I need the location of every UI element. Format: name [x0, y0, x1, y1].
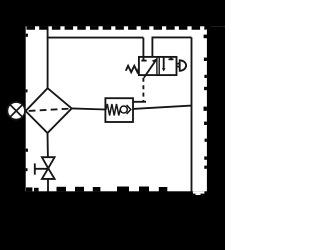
- white page background: [0, 0, 225, 250]
- dashed element line through filter: [29, 109, 71, 111]
- right edge nicks: [204, 58, 207, 61]
- stub from box top-right: [133, 101, 146, 103]
- left edge nicks: [26, 34, 28, 37]
- pushbutton operator (valve right): [177, 60, 187, 71]
- wire: bracket from valve top over to right riser: [152, 37, 191, 57]
- filter F1 (diamond): [26, 88, 72, 133]
- bottom margin band: [0, 191, 225, 250]
- down arrow in right square: [162, 57, 166, 72]
- black scan margins: [0, 0, 225, 250]
- wire: shutoff valve down to bottom edge: [47, 179, 49, 194]
- spring (valve left): [126, 66, 139, 72]
- wire: check-valve box to right riser: [133, 106, 192, 109]
- directional valve U1 body (2 squares): [139, 57, 177, 75]
- wire: filter outlet to check-valve box: [72, 108, 106, 109]
- bottom ragged dashes: [26, 187, 32, 191]
- wire: left supply riser (top border to filter): [47, 24, 49, 88]
- left margin band: [0, 0, 26, 250]
- pilot line (dashed) from valve to check-valve stub: [142, 78, 144, 102]
- top margin band: [0, 0, 225, 26]
- top-right corner step: [205, 26, 211, 29]
- blocked port T in right square: [169, 57, 174, 60]
- right margin band: [207, 26, 225, 250]
- blocked port T in left square: [141, 57, 146, 61]
- wire: filter bottom to shutoff valve: [47, 133, 49, 158]
- wire: top horizontal run to valve drop: [47, 37, 144, 39]
- clogging indicator (circle with X) drawn over margin: [7, 102, 25, 120]
- wire: vertical drop into valve left-square top port: [142, 38, 144, 58]
- wire: right return riser down to bottom edge: [191, 37, 193, 194]
- check valve C1 (boxed, spring loaded): [105, 98, 133, 122]
- top ragged dash strip: [27, 26, 207, 30]
- flow arrow in left square: [144, 58, 157, 77]
- shutoff valve V1 (bowtie with T handle): [35, 157, 55, 179]
- bottom-right white tongue: [193, 191, 205, 193]
